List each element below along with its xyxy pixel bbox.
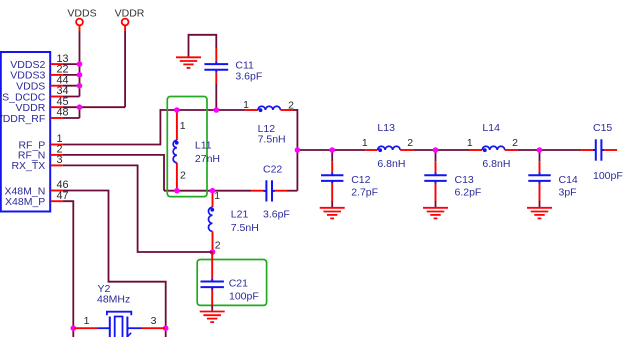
svg-text:2: 2	[512, 137, 518, 149]
svg-text:VDDR_RF: VDDR_RF	[0, 113, 45, 125]
svg-text:2: 2	[407, 137, 413, 149]
svg-text:2: 2	[215, 239, 221, 251]
svg-text:100pF: 100pF	[593, 170, 623, 182]
svg-text:L13: L13	[377, 122, 395, 134]
svg-text:C12: C12	[351, 174, 370, 186]
svg-text:VDDR: VDDR	[115, 8, 145, 20]
svg-text:48MHz: 48MHz	[97, 293, 130, 305]
svg-text:48: 48	[57, 107, 69, 119]
svg-text:47: 47	[57, 190, 69, 202]
svg-text:7.5nH: 7.5nH	[258, 133, 286, 145]
svg-text:3: 3	[57, 154, 63, 166]
svg-text:27nH: 27nH	[195, 153, 220, 165]
svg-text:2: 2	[180, 170, 186, 182]
svg-text:1: 1	[362, 137, 368, 149]
svg-text:C22: C22	[263, 164, 282, 176]
svg-text:1: 1	[180, 120, 186, 132]
svg-text:7.5nH: 7.5nH	[231, 222, 259, 234]
svg-text:L14: L14	[482, 122, 500, 134]
svg-text:1: 1	[467, 137, 473, 149]
svg-text:L21: L21	[231, 208, 249, 220]
svg-text:X48M_P: X48M_P	[5, 196, 45, 208]
svg-text:1: 1	[214, 190, 220, 202]
svg-text:C13: C13	[455, 174, 474, 186]
svg-text:C21: C21	[229, 277, 248, 289]
svg-text:6.8nH: 6.8nH	[482, 158, 510, 170]
svg-text:3pF: 3pF	[559, 186, 577, 198]
svg-text:6.2pF: 6.2pF	[455, 186, 482, 198]
svg-text:RX_TX: RX_TX	[11, 160, 45, 172]
svg-text:VDDS: VDDS	[67, 8, 96, 20]
svg-text:3.6pF: 3.6pF	[235, 70, 262, 82]
svg-text:C15: C15	[593, 122, 612, 134]
svg-text:6.8nH: 6.8nH	[377, 158, 405, 170]
svg-text:100pF: 100pF	[229, 290, 259, 302]
svg-text:2.7pF: 2.7pF	[351, 186, 378, 198]
svg-text:C14: C14	[559, 174, 578, 186]
svg-text:1: 1	[243, 99, 249, 111]
svg-text:1: 1	[84, 315, 90, 327]
svg-text:3.6pF: 3.6pF	[263, 209, 290, 221]
svg-text:2: 2	[288, 99, 294, 111]
svg-text:3: 3	[151, 315, 157, 327]
svg-text:L11: L11	[195, 139, 212, 151]
